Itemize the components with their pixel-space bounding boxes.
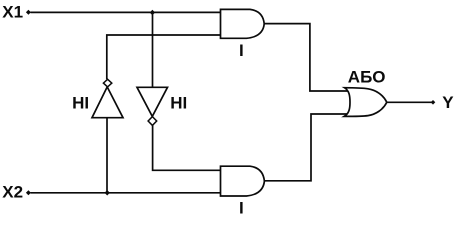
OR gate (АБО) [344,88,387,117]
svg-text:Y: Y [442,93,454,112]
wire AND2 output to OR input 2 [264,114,347,181]
junction on X2 wire [105,190,110,195]
wire junction to NOT1 input [106,118,108,193]
wire X2 to AND2 input 2 [31,192,221,194]
svg-text:НІ: НІ [72,94,89,113]
bubble NOT1 [103,79,111,87]
junction on X1 wire [150,10,155,15]
wire NOT2 output to AND2 input 1 [153,125,221,170]
svg-text:НІ: НІ [170,94,187,113]
svg-text:АБО: АБО [348,68,386,87]
inverter U2 NOT (triangle pointing down) [137,87,168,116]
wire AND1 output to OR input 1 [264,24,348,91]
wire X1 to AND1 input 1 [31,11,221,13]
svg-text:X1: X1 [2,3,23,22]
AND gate 2 (І) [221,166,265,196]
wire OR output to Y [386,101,433,103]
wire NOT1 output to AND1 input 2 [107,35,221,79]
terminal dot X2 [26,190,31,195]
inverter U1 NOT (triangle pointing up) [92,87,123,118]
svg-text:X2: X2 [2,183,23,202]
wire junction to NOT2 input [152,12,154,87]
bubble NOT2 [148,117,157,126]
terminal dot X1 [26,10,31,15]
svg-text:І: І [239,41,244,60]
terminal dot Y [431,100,436,105]
AND gate 1 (І) [221,9,265,38]
svg-text:І: І [239,199,244,218]
